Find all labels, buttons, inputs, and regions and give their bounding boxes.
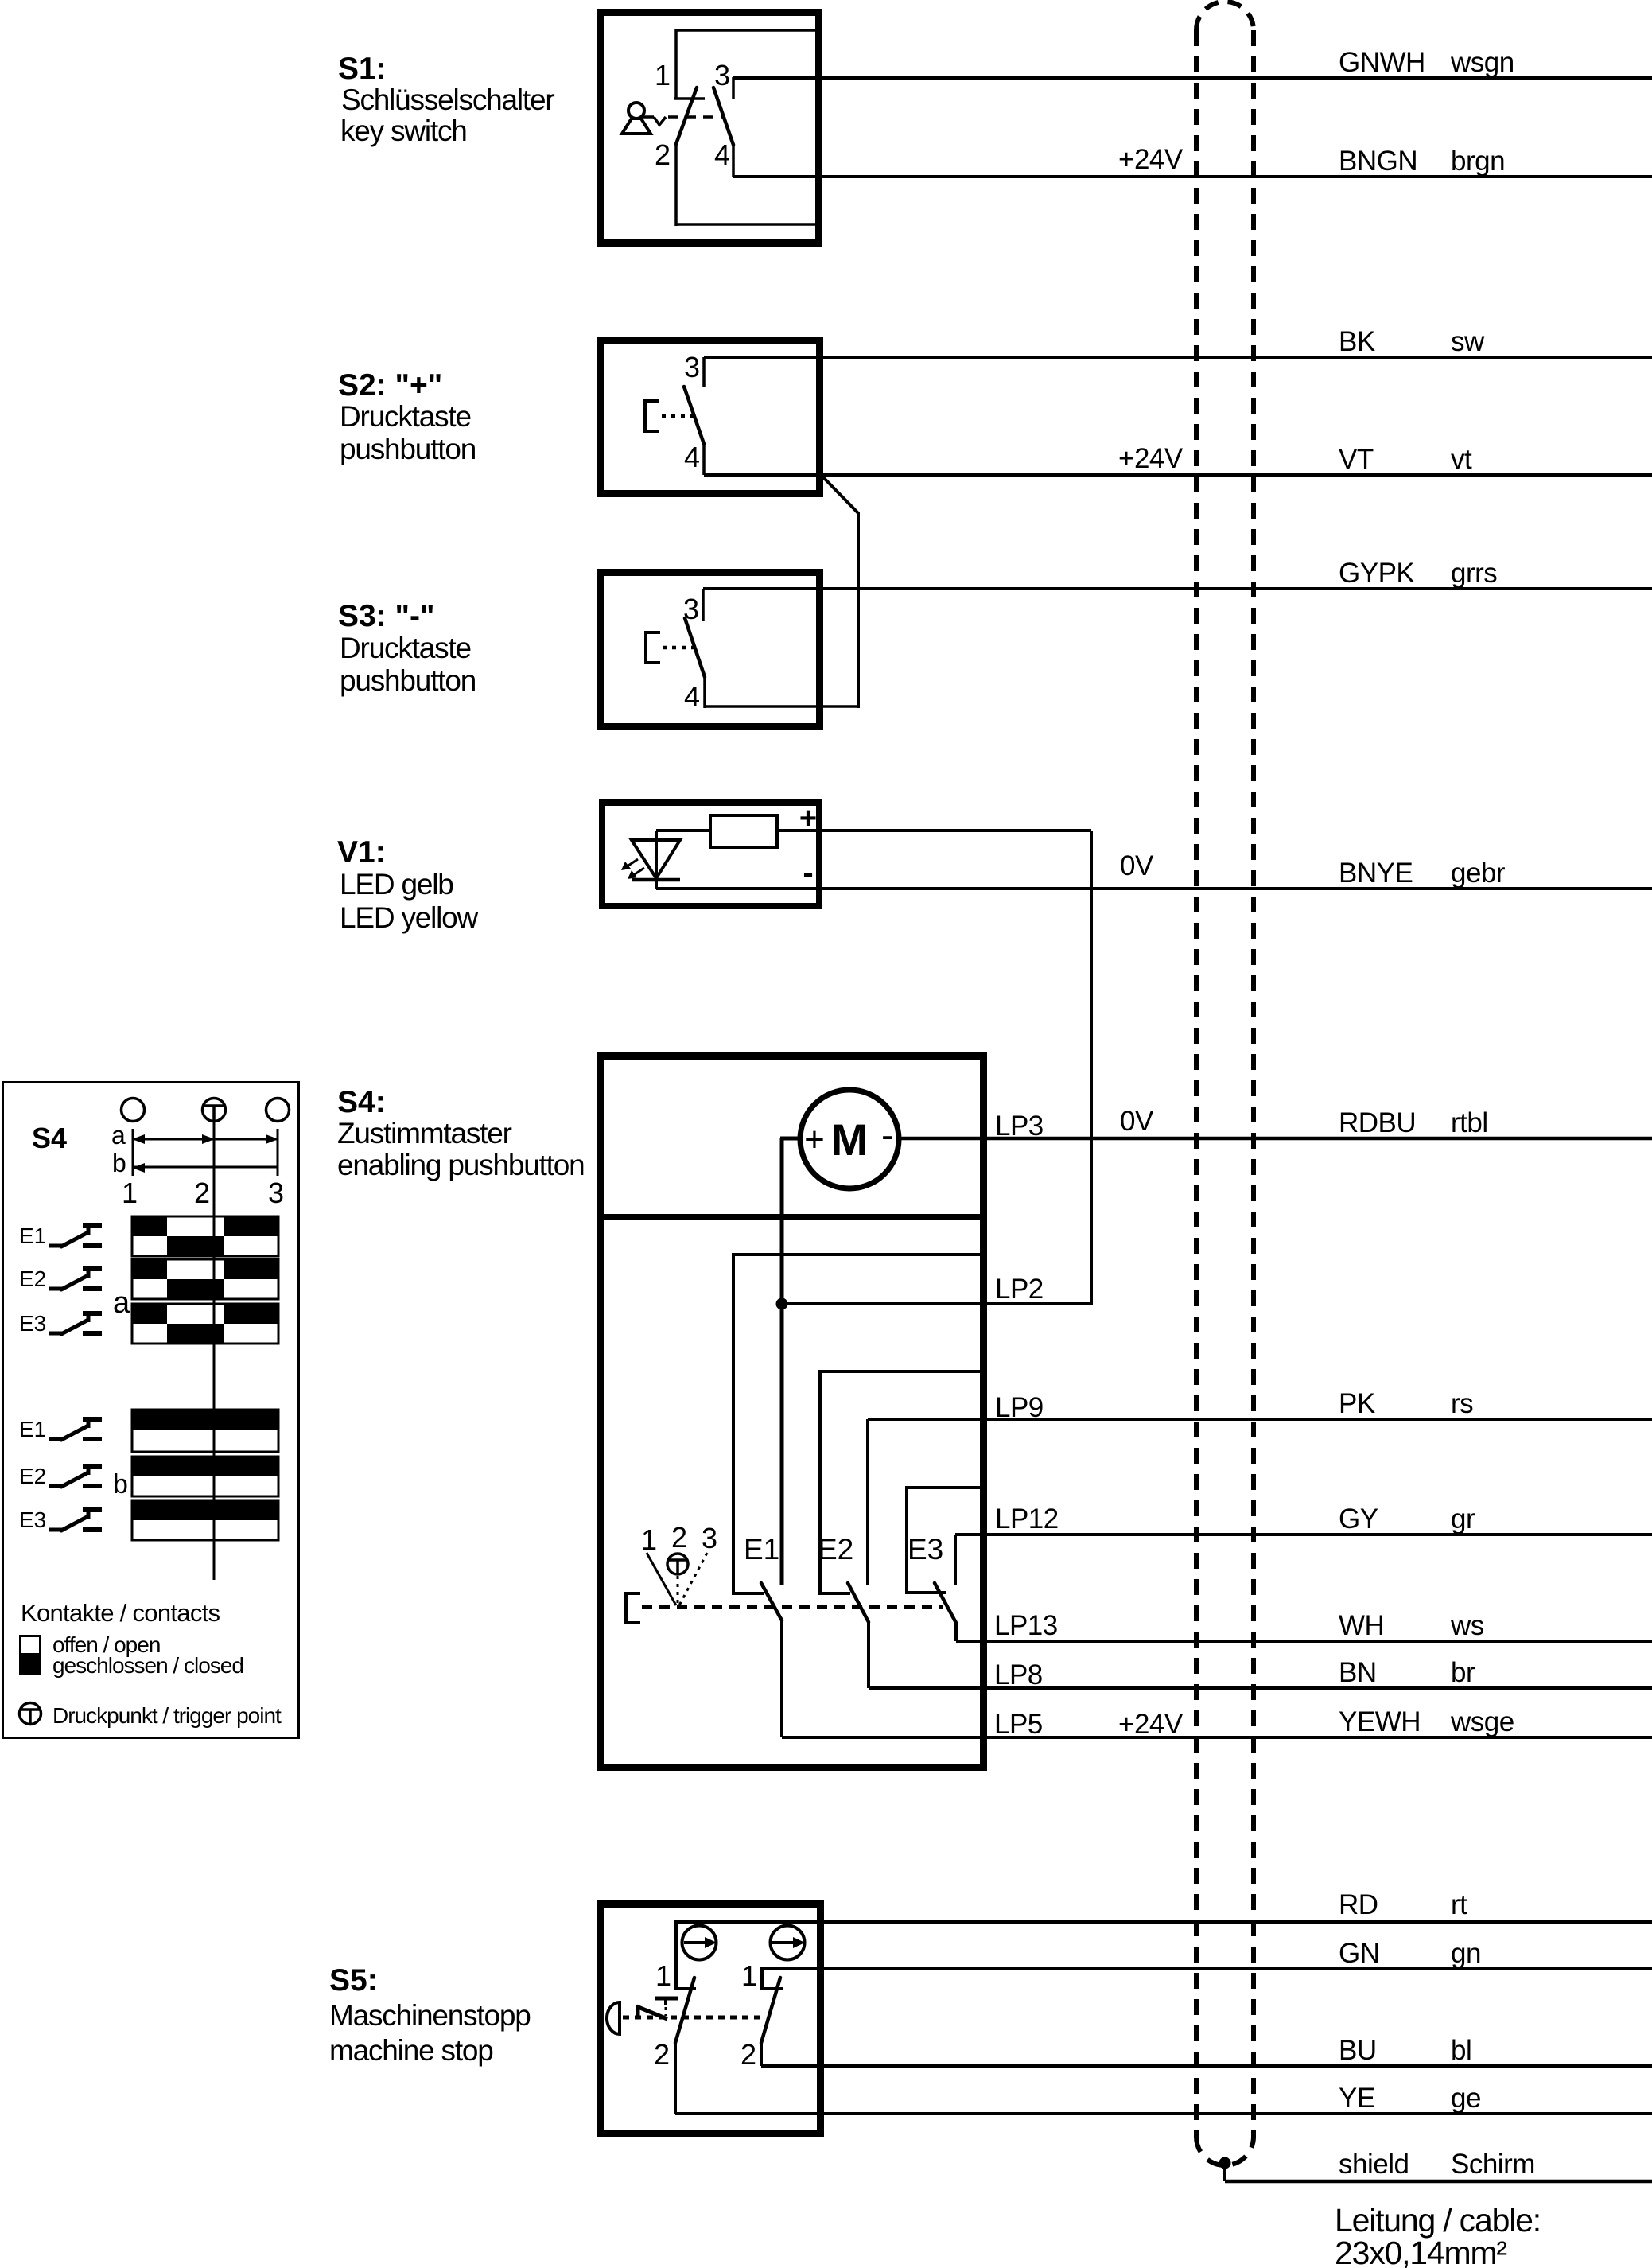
svg-text:gr: gr <box>1451 1504 1475 1535</box>
svg-text:BU: BU <box>1339 2035 1377 2066</box>
S1 pin 4 lead <box>732 145 735 177</box>
svg-text:brgn: brgn <box>1451 146 1505 177</box>
svg-text:pushbutton: pushbutton <box>340 433 476 465</box>
sidebar E2 label (section b) <box>19 1464 46 1488</box>
wire LP5 (+24V) <box>782 1736 1652 1739</box>
label wsgn <box>1450 47 1514 78</box>
label LP12 <box>995 1504 1059 1535</box>
sidebar E1 label (section b) <box>19 1417 46 1441</box>
S3 enclosure box <box>601 573 820 727</box>
svg-text:machine stop: machine stop <box>329 2034 493 2067</box>
svg-text:LP12: LP12 <box>995 1504 1059 1535</box>
label VT <box>1339 444 1374 475</box>
sidebar label a (dim) <box>111 1121 126 1150</box>
E2 moving lead <box>867 1622 870 1688</box>
S5 switch2 pin1 loop <box>760 1967 783 1990</box>
svg-text:BK: BK <box>1339 326 1375 357</box>
LED V1 vertical lead <box>655 831 658 889</box>
S5 mushroom actuator <box>607 2002 620 2034</box>
svg-text:PK: PK <box>1339 1388 1375 1419</box>
svg-text:rt: rt <box>1451 1889 1467 1920</box>
sidebar E3 bar row (section b) <box>132 1500 278 1540</box>
label 0V (BNYE) <box>1120 850 1154 881</box>
S3 label text <box>338 599 476 697</box>
sidebar E1 label (section a) <box>19 1223 46 1248</box>
sidebar tick 1 <box>132 1129 134 1176</box>
svg-text:E3: E3 <box>19 1311 46 1336</box>
label gn <box>1451 1938 1481 1969</box>
svg-text:VT: VT <box>1339 444 1374 475</box>
cable boundary left dashed <box>1194 30 1199 2137</box>
S4 actuator pos 1 label <box>641 1523 657 1556</box>
wire RD <box>676 1920 1652 1924</box>
S3 contact arm <box>685 618 705 677</box>
S4 actuator pos 2 label <box>671 1521 687 1554</box>
label LP2 <box>995 1274 1044 1305</box>
svg-text:ws: ws <box>1450 1610 1484 1641</box>
S1 contact 1-2 arm <box>676 88 697 144</box>
LED V1 triangle <box>632 840 680 878</box>
S2 actuator bracket <box>645 401 659 431</box>
svg-text:LP2: LP2 <box>995 1274 1044 1305</box>
label RD <box>1339 1889 1378 1920</box>
S2 pin 4 lead <box>702 444 706 475</box>
wire LP2 <box>782 1302 1093 1305</box>
sidebar E2 switch glyph (section b) <box>49 1466 102 1487</box>
LED V1 emission arrows <box>621 859 644 879</box>
label BK <box>1339 326 1375 357</box>
svg-text:E1: E1 <box>744 1533 779 1566</box>
svg-text:E2: E2 <box>19 1266 46 1291</box>
shield drop wire <box>1223 2163 1226 2181</box>
svg-text:BN: BN <box>1339 1657 1377 1688</box>
svg-text:YE: YE <box>1339 2083 1375 2114</box>
label rs <box>1451 1388 1473 1419</box>
label Schirm <box>1451 2149 1535 2180</box>
S4 label text <box>337 1085 585 1181</box>
wire LP9 <box>868 1418 1652 1421</box>
E1 fixed seat <box>732 1592 764 1595</box>
S1 enclosure box <box>601 13 819 243</box>
svg-text:vt: vt <box>1451 444 1472 475</box>
motor plus label <box>804 1120 825 1159</box>
label +24V (LP5) <box>1118 1709 1184 1740</box>
svg-text:2: 2 <box>654 2038 670 2071</box>
svg-text:+24V: +24V <box>1118 1709 1184 1740</box>
sidebar S4 title <box>32 1122 67 1154</box>
svg-text:Kontakte / contacts: Kontakte / contacts <box>21 1599 220 1627</box>
S1 inner frame bottom <box>676 223 820 226</box>
E3 loop <box>907 1488 983 1593</box>
S5 switch2 arm <box>761 1978 780 2043</box>
label LP5 <box>994 1709 1043 1740</box>
cable note line 1 <box>1335 2202 1541 2239</box>
E3 moving lead <box>954 1623 958 1641</box>
svg-text:grrs: grrs <box>1451 558 1497 589</box>
svg-text:LED yellow: LED yellow <box>340 901 479 934</box>
V1 label text <box>337 835 479 934</box>
svg-text:enabling pushbutton: enabling pushbutton <box>337 1149 585 1181</box>
wire BU <box>761 2064 1652 2068</box>
S2 contact arm <box>684 387 704 444</box>
svg-text:S5:: S5: <box>329 1963 378 1998</box>
sidebar legend trigger symbol <box>20 1703 41 1725</box>
sidebar E3 switch glyph (section b) <box>49 1510 102 1531</box>
svg-text:S2: "+": S2: "+" <box>338 368 442 403</box>
S1 pin 2 lead <box>674 144 678 226</box>
E1 loop <box>733 1255 983 1593</box>
wire LP3 (motor minus to RDBU) <box>899 1137 1652 1141</box>
S2 label text <box>338 368 476 465</box>
label brgn <box>1451 146 1505 177</box>
svg-text:gebr: gebr <box>1451 858 1506 889</box>
svg-text:0V: 0V <box>1120 850 1154 881</box>
cable note line 2 <box>1335 2235 1506 2268</box>
label wsge <box>1450 1706 1514 1737</box>
cable boundary bottom arc <box>1196 2137 1254 2165</box>
svg-text:1: 1 <box>641 1523 657 1556</box>
S4 actuator bracket <box>626 1593 640 1623</box>
sidebar E1 switch glyph (section a) <box>49 1226 102 1247</box>
label grrs <box>1451 558 1497 589</box>
svg-text:GN: GN <box>1339 1938 1380 1969</box>
S5 switch1 pin2 label <box>654 2038 670 2071</box>
svg-text:E3: E3 <box>908 1533 943 1566</box>
S5 enclosure box <box>601 1904 821 2134</box>
sidebar trigger point circle 2 <box>203 1099 226 1122</box>
svg-text:+: + <box>799 802 817 835</box>
svg-text:4: 4 <box>684 441 700 473</box>
cable boundary right dashed <box>1251 30 1256 2137</box>
svg-text:-: - <box>803 855 813 890</box>
label GYPK <box>1339 558 1414 589</box>
E2 label <box>818 1533 853 1566</box>
svg-text:LP8: LP8 <box>994 1659 1043 1690</box>
wire GNWH <box>733 76 1652 80</box>
wire +24V branch vertical <box>857 512 860 708</box>
S2 actuator dotted link <box>662 414 695 418</box>
sidebar legend closed box <box>19 1653 41 1675</box>
svg-text:2: 2 <box>655 138 671 171</box>
svg-text:GNWH: GNWH <box>1339 47 1425 78</box>
V1 plus label <box>799 802 817 835</box>
sidebar E1 bar row (section a) <box>132 1216 278 1256</box>
S2 enclosure box <box>601 341 820 494</box>
svg-text:Schlüsselschalter: Schlüsselschalter <box>341 84 554 116</box>
svg-text:3: 3 <box>684 351 700 383</box>
svg-text:E2: E2 <box>19 1464 46 1488</box>
sidebar E3 bar row (section a) <box>132 1304 278 1344</box>
svg-text:23x0,14mm²: 23x0,14mm² <box>1335 2235 1506 2268</box>
svg-text:LP13: LP13 <box>994 1610 1058 1641</box>
svg-text:bl: bl <box>1451 2035 1471 2066</box>
svg-text:2: 2 <box>194 1177 210 1209</box>
svg-text:shield: shield <box>1339 2149 1409 2180</box>
S2 pin 3 label <box>684 351 700 383</box>
svg-text:S1:: S1: <box>338 52 387 86</box>
svg-text:1: 1 <box>655 1959 671 1992</box>
wire GYPK <box>703 587 1652 590</box>
svg-text:1: 1 <box>655 59 671 91</box>
sidebar E2 bar row (section b) <box>132 1457 278 1496</box>
S1 pin 1 label <box>655 59 671 91</box>
LED V1 cathode bar <box>632 878 680 882</box>
S5 label text <box>329 1963 531 2067</box>
sidebar E2 switch glyph (section a) <box>49 1269 102 1290</box>
sidebar position circle 3 <box>266 1099 290 1122</box>
sidebar legend trigger text <box>52 1703 282 1728</box>
svg-text:LP5: LP5 <box>994 1709 1043 1740</box>
svg-text:+24V: +24V <box>1118 144 1184 175</box>
sidebar label b (dim) <box>112 1149 126 1177</box>
S5 switch2 pin2 lead <box>760 2043 763 2066</box>
svg-text:1: 1 <box>122 1177 138 1209</box>
S5 switch1 pin1 loop <box>674 1920 696 1990</box>
svg-text:RDBU: RDBU <box>1339 1107 1416 1138</box>
svg-text:Leitung / cable:: Leitung / cable: <box>1335 2202 1541 2239</box>
wire VT <box>704 473 1652 477</box>
S4 actuator pos 3 label <box>702 1522 717 1554</box>
motor M circle <box>800 1090 899 1188</box>
sidebar number 3 <box>268 1177 284 1209</box>
sidebar E3 switch glyph (section a) <box>49 1313 102 1334</box>
key actuator link solid <box>643 115 654 119</box>
label +24V (VT) <box>1118 443 1184 474</box>
svg-text:RD: RD <box>1339 1889 1378 1920</box>
S5 twist-release symbol right <box>771 1926 806 1960</box>
S1 pin 3 label <box>714 59 730 91</box>
svg-text:3: 3 <box>268 1177 284 1209</box>
wire BK <box>704 356 1652 359</box>
svg-text:WH: WH <box>1339 1610 1384 1641</box>
label bl <box>1451 2035 1471 2066</box>
svg-text:ge: ge <box>1451 2083 1481 2114</box>
svg-text:LED gelb: LED gelb <box>340 868 453 901</box>
wire LP12 <box>955 1533 1652 1536</box>
sidebar label a (table) <box>113 1286 130 1320</box>
sidebar legend closed text <box>52 1653 243 1678</box>
label LP9 <box>995 1392 1044 1423</box>
label br <box>1451 1657 1475 1688</box>
sidebar E1 bar row (section b) <box>132 1410 278 1452</box>
label WH <box>1339 1610 1384 1641</box>
label gebr <box>1451 858 1506 889</box>
E3 contact arm <box>935 1583 956 1623</box>
svg-text:sw: sw <box>1451 326 1485 357</box>
S3 actuator bracket <box>646 632 660 663</box>
E2 fixed lead (LP9) <box>866 1419 869 1585</box>
sidebar legend open text <box>52 1632 160 1657</box>
E3 fixed lead (LP12) <box>954 1535 957 1585</box>
svg-text:a: a <box>113 1286 130 1320</box>
svg-text:Zustimmtaster: Zustimmtaster <box>337 1117 512 1150</box>
svg-text:Druckpunkt / trigger point: Druckpunkt / trigger point <box>52 1703 282 1728</box>
S5 switch1 NC seat <box>655 1998 678 2016</box>
S5 switch2 pin2 label <box>740 2038 756 2071</box>
sidebar legend title <box>21 1599 220 1627</box>
sidebar E2 bar row (section a) <box>132 1259 278 1299</box>
cable boundary top arc <box>1196 2 1254 30</box>
wire shield <box>1225 2180 1652 2184</box>
svg-text:wsge: wsge <box>1450 1706 1514 1737</box>
S5 twist-release symbol left <box>682 1926 717 1960</box>
svg-text:E1: E1 <box>19 1223 46 1248</box>
sidebar center travel line <box>213 1122 216 1580</box>
sidebar legend open box <box>21 1636 41 1655</box>
S1 pin 1 lead <box>674 29 678 99</box>
S4 actuator dashed line <box>642 1605 943 1609</box>
S4 trigger point symbol <box>667 1554 688 1574</box>
sidebar panel box <box>3 1083 299 1738</box>
S5 switch2 pin1 label <box>741 1959 757 1992</box>
E3 label <box>908 1533 943 1566</box>
svg-text:E1: E1 <box>19 1417 46 1441</box>
label LP8 <box>994 1659 1043 1690</box>
label GNWH <box>1339 47 1425 78</box>
wire +24V branch diagonal <box>823 477 858 513</box>
svg-text:S4:: S4: <box>337 1085 386 1119</box>
sidebar tick 3 <box>277 1129 279 1176</box>
S5 switch1 pin1 label <box>655 1959 671 1992</box>
svg-text:+: + <box>804 1120 825 1159</box>
label PK <box>1339 1388 1375 1419</box>
svg-text:4: 4 <box>714 138 730 171</box>
sidebar number 1 <box>122 1177 138 1209</box>
V1 enclosure box <box>602 803 819 906</box>
label shield <box>1339 2149 1409 2180</box>
label rt <box>1451 1889 1467 1920</box>
svg-text:GY: GY <box>1339 1504 1378 1535</box>
S3 pin 4 label <box>684 680 700 713</box>
S4 actuator pos2 dotted line <box>677 1576 679 1605</box>
S1 pin 2 label <box>655 138 671 171</box>
S4 compartment divider <box>597 1214 987 1220</box>
svg-text:+24V: +24V <box>1118 443 1184 474</box>
V1 minus label <box>803 855 813 890</box>
svg-text:S4: S4 <box>32 1122 67 1154</box>
S5 switch1 pin2 lead <box>674 2043 677 2114</box>
label gr <box>1451 1504 1475 1535</box>
label ge <box>1451 2083 1481 2114</box>
svg-text:0V: 0V <box>1120 1106 1154 1137</box>
svg-text:-: - <box>881 1115 894 1157</box>
svg-text:rs: rs <box>1451 1388 1473 1419</box>
label 0V (RDBU) <box>1120 1106 1154 1137</box>
S1 inner frame top <box>676 29 820 32</box>
sidebar number 2 <box>194 1177 210 1209</box>
key actuator link dashed <box>668 115 724 119</box>
svg-text:E2: E2 <box>818 1533 853 1566</box>
svg-text:key switch: key switch <box>340 115 467 147</box>
sidebar dim line b <box>132 1163 278 1173</box>
wire S3.4 to +24V horizontal <box>705 705 858 708</box>
E1 label <box>744 1533 779 1566</box>
label GN <box>1339 1938 1380 1969</box>
svg-text:LP3: LP3 <box>995 1111 1044 1142</box>
label sw <box>1451 326 1485 357</box>
svg-text:br: br <box>1451 1657 1475 1688</box>
svg-text:a: a <box>111 1121 126 1150</box>
svg-text:E3: E3 <box>19 1507 46 1532</box>
resistor R (V1 series) <box>710 815 777 847</box>
svg-text:LP9: LP9 <box>995 1392 1044 1423</box>
E3 fixed seat <box>905 1591 946 1594</box>
S5 latch symbol <box>636 2005 667 2019</box>
sidebar position circle 1 <box>122 1099 145 1122</box>
svg-text:Drucktaste: Drucktaste <box>340 632 471 664</box>
wire GN <box>762 1967 1652 1970</box>
wire BNGN <box>733 175 1652 178</box>
svg-text:geschlossen / closed: geschlossen / closed <box>52 1653 243 1678</box>
svg-text:4: 4 <box>684 680 700 713</box>
svg-text:GYPK: GYPK <box>1339 558 1414 589</box>
wire YE <box>675 2112 1652 2115</box>
S4 actuator pos1 line <box>647 1553 676 1605</box>
svg-text:M: M <box>831 1115 869 1165</box>
S3 pin 4 lead <box>703 677 706 708</box>
svg-text:Schirm: Schirm <box>1451 2149 1535 2180</box>
V1 anode wire <box>656 829 710 832</box>
motor M label <box>831 1115 869 1165</box>
S2 pin 4 label <box>684 441 700 473</box>
svg-text:b: b <box>113 1469 128 1500</box>
S1 label text <box>338 52 554 147</box>
motor minus label <box>881 1115 894 1157</box>
sidebar E1 switch glyph (section b) <box>49 1419 102 1440</box>
wire V1 plus riser to LP2 <box>1090 831 1093 1305</box>
label BN <box>1339 1657 1377 1688</box>
E2 loop <box>820 1371 983 1593</box>
label ws <box>1450 1610 1484 1641</box>
wire BNYE (0V) <box>656 887 1652 890</box>
S1 contact 3-4 arm <box>713 88 733 145</box>
S3 pin 3 label <box>683 593 699 625</box>
svg-text:wsgn: wsgn <box>1450 47 1514 78</box>
E1 moving lead <box>780 1620 783 1737</box>
svg-text:YEWH: YEWH <box>1339 1706 1421 1737</box>
svg-text:3: 3 <box>702 1522 717 1554</box>
S1 contact 1-2 seat <box>674 97 705 100</box>
svg-text:Maschinenstopp: Maschinenstopp <box>329 1999 531 2032</box>
sidebar E2 label (section a) <box>19 1266 46 1291</box>
label BNGN <box>1339 146 1417 177</box>
svg-text:3: 3 <box>714 59 730 91</box>
label rtbl <box>1451 1107 1488 1138</box>
svg-text:pushbutton: pushbutton <box>340 664 476 697</box>
label +24V (BNGN) <box>1118 144 1184 175</box>
S4 enclosure box <box>601 1056 984 1768</box>
wire LP8 <box>869 1686 1652 1690</box>
key actuator symbol <box>622 103 651 134</box>
S1 pin 4 label <box>714 138 730 171</box>
S5 switch1 arm <box>675 1978 694 2043</box>
label YE <box>1339 2083 1375 2114</box>
sidebar E3 label (section a) <box>19 1311 46 1336</box>
svg-text:2: 2 <box>740 2038 756 2071</box>
S3 pin 3 lead <box>702 589 705 621</box>
label RDBU <box>1339 1107 1416 1138</box>
sidebar dim line a <box>132 1134 278 1144</box>
sidebar label b (table) <box>113 1469 128 1500</box>
S1 pin 3 lead <box>732 77 735 99</box>
label BNYE <box>1339 858 1413 889</box>
label LP13 <box>994 1610 1058 1641</box>
svg-text:rtbl: rtbl <box>1451 1107 1488 1138</box>
S4 actuator pos3 dotted line <box>679 1553 707 1605</box>
svg-text:V1:: V1: <box>337 835 386 869</box>
node LP2 junction dot <box>776 1298 787 1309</box>
motor plus wire <box>780 1138 800 1585</box>
